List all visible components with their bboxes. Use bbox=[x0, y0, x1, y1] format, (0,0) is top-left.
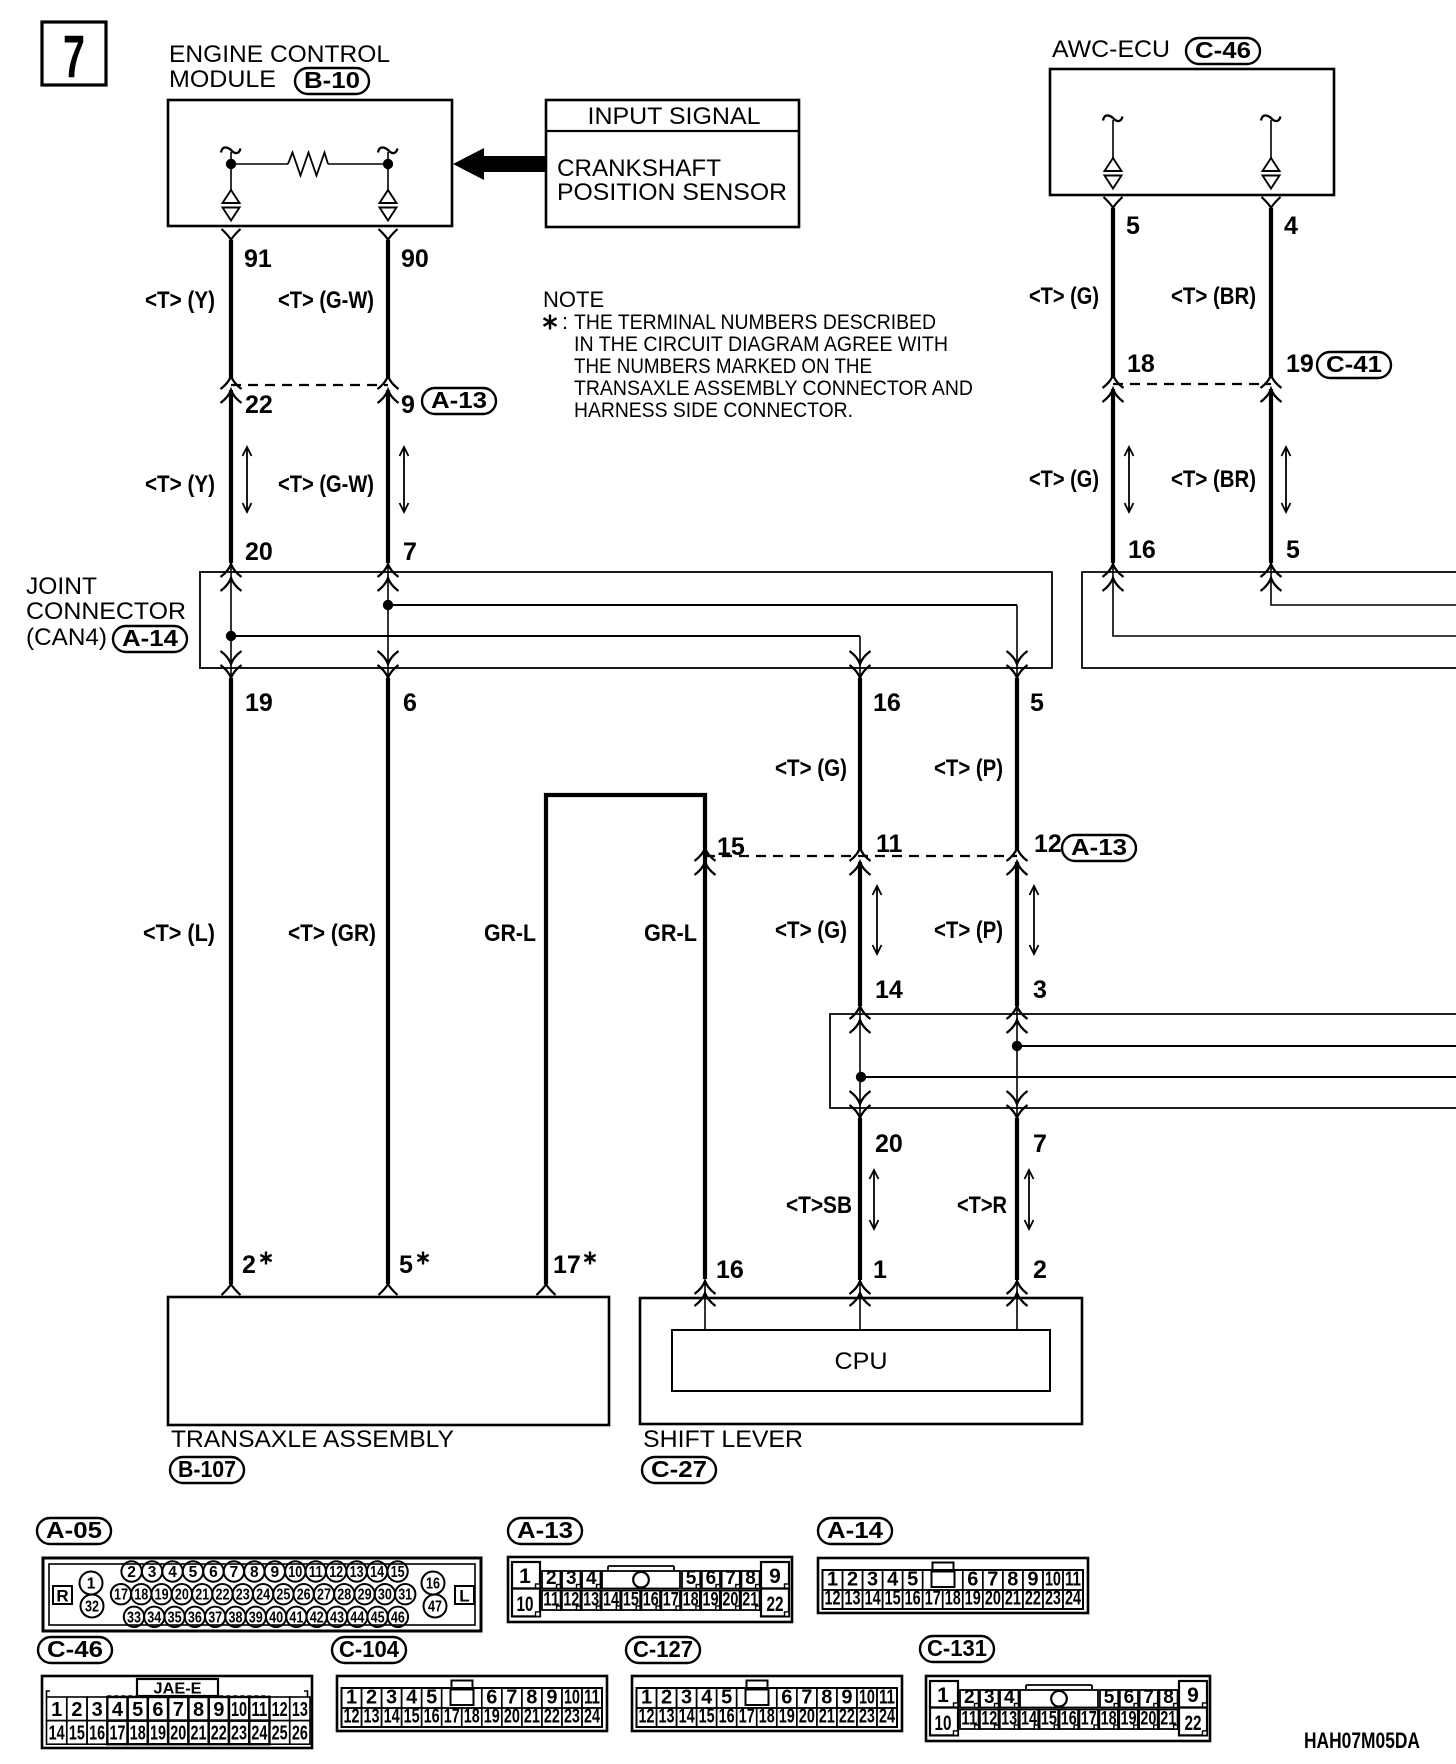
twisted pair arrow W6 middle bbox=[1030, 886, 1039, 954]
wire W5 through joint connector 2 bbox=[859, 1005, 861, 1121]
svg-text:6: 6 bbox=[209, 1564, 218, 1581]
svg-text:22: 22 bbox=[767, 1593, 784, 1616]
ECM internal coil pin right bbox=[378, 147, 398, 220]
svg-text:A-13: A-13 bbox=[431, 387, 487, 413]
svg-text:7: 7 bbox=[725, 1568, 736, 1589]
wire 11 to joint connector 2 pin 14 bbox=[858, 862, 862, 1006]
joint connector A-14 left box bbox=[200, 572, 1052, 668]
svg-text:4: 4 bbox=[168, 1564, 177, 1581]
CPU box bbox=[672, 1330, 1050, 1391]
svg-text:24: 24 bbox=[584, 1706, 601, 1728]
twisted pair arrow W8 bbox=[1282, 447, 1291, 512]
svg-text:6: 6 bbox=[403, 689, 417, 717]
twisted pair arrow W5 lower bbox=[870, 1170, 879, 1229]
svg-text:12: 12 bbox=[272, 1699, 288, 1721]
svg-text:18: 18 bbox=[134, 1587, 148, 1604]
svg-text:36: 36 bbox=[188, 1609, 202, 1626]
svg-text:10: 10 bbox=[935, 1712, 952, 1735]
svg-text:17: 17 bbox=[109, 1723, 125, 1745]
svg-text:13: 13 bbox=[364, 1706, 380, 1728]
svg-text:21: 21 bbox=[1005, 1588, 1021, 1610]
svg-text:17: 17 bbox=[444, 1706, 460, 1728]
connector label B-107 bbox=[170, 1456, 244, 1483]
svg-text:2: 2 bbox=[546, 1568, 557, 1589]
svg-text:22: 22 bbox=[216, 1587, 230, 1604]
svg-text:L: L bbox=[459, 1587, 469, 1606]
svg-text:15: 15 bbox=[699, 1706, 715, 1728]
svg-text:<T> (G): <T> (G) bbox=[1029, 283, 1099, 310]
svg-text:4: 4 bbox=[1004, 1687, 1015, 1708]
svg-text:24: 24 bbox=[256, 1587, 270, 1604]
svg-text:A-05: A-05 bbox=[46, 1517, 102, 1543]
svg-text:17: 17 bbox=[925, 1588, 941, 1610]
svg-text:GR-L: GR-L bbox=[644, 920, 697, 947]
svg-text:1: 1 bbox=[51, 1699, 62, 1721]
svg-text:CPU: CPU bbox=[835, 1348, 888, 1375]
svg-text:4: 4 bbox=[112, 1699, 124, 1721]
svg-text:A-14: A-14 bbox=[122, 625, 178, 651]
joint connector entry chevrons W2 top bbox=[378, 564, 399, 591]
svg-text:19: 19 bbox=[150, 1723, 166, 1745]
svg-text:25: 25 bbox=[272, 1723, 288, 1745]
svg-text:91: 91 bbox=[244, 245, 272, 273]
svg-text:15: 15 bbox=[404, 1706, 420, 1728]
svg-text:7: 7 bbox=[230, 1564, 239, 1581]
svg-text:1: 1 bbox=[873, 1256, 887, 1284]
svg-text:8: 8 bbox=[1163, 1687, 1174, 1708]
joint connector right entry chevrons W7 bbox=[1103, 564, 1124, 591]
svg-text:A-14: A-14 bbox=[827, 1517, 883, 1543]
svg-text:B-10: B-10 bbox=[304, 67, 360, 93]
svg-text:43: 43 bbox=[330, 1609, 344, 1626]
svg-text:11: 11 bbox=[251, 1699, 267, 1721]
svg-text:2: 2 bbox=[71, 1699, 82, 1721]
svg-text:22: 22 bbox=[245, 391, 273, 419]
connector label C-131 bbox=[920, 1635, 994, 1662]
svg-text:26: 26 bbox=[297, 1587, 311, 1604]
junction dot W1 CAN branch bbox=[226, 631, 236, 641]
svg-text:19: 19 bbox=[155, 1587, 169, 1604]
wire GR-L loop top bbox=[546, 795, 705, 1284]
ECM internal coil pin left bbox=[221, 147, 241, 220]
svg-text:4: 4 bbox=[1284, 212, 1298, 240]
svg-text:20: 20 bbox=[985, 1588, 1001, 1610]
svg-text:23: 23 bbox=[231, 1723, 247, 1745]
label JOINT CONNECTOR CAN4 bbox=[26, 573, 186, 651]
svg-text:34: 34 bbox=[147, 1609, 161, 1626]
dashed connector line A-13 middle bbox=[705, 855, 1017, 857]
shift lever entry chevrons pin 1 bbox=[850, 1281, 871, 1306]
wire CAN ECM pin 90 upper segment bbox=[379, 229, 398, 378]
svg-text:16: 16 bbox=[719, 1706, 735, 1728]
connector label C-46 top bbox=[1186, 37, 1260, 64]
svg-text:9: 9 bbox=[401, 391, 415, 419]
svg-text:C-27: C-27 bbox=[651, 1456, 707, 1482]
svg-text:JAE-E: JAE-E bbox=[154, 1681, 202, 1698]
svg-text:5: 5 bbox=[1030, 689, 1044, 717]
svg-text:<T> (Y): <T> (Y) bbox=[145, 287, 215, 314]
connector label A-13 top bbox=[422, 387, 496, 414]
svg-text:3: 3 bbox=[566, 1568, 577, 1589]
wire pin16 into CPU bbox=[704, 1281, 706, 1330]
svg-text:HAH07M05DA: HAH07M05DA bbox=[1304, 1728, 1420, 1753]
svg-text:3: 3 bbox=[148, 1564, 157, 1581]
resistor R between ECM pins 91 and 90 bbox=[235, 153, 384, 176]
svg-text:<T> (BR): <T> (BR) bbox=[1171, 283, 1256, 310]
svg-text:6: 6 bbox=[1124, 1687, 1135, 1708]
svg-text:14: 14 bbox=[679, 1706, 696, 1728]
joint connector 2 box bbox=[830, 1014, 1456, 1108]
svg-text:20: 20 bbox=[799, 1706, 815, 1728]
svg-text:<T>R: <T>R bbox=[957, 1192, 1007, 1219]
svg-text:<T> (P): <T> (P) bbox=[934, 755, 1003, 782]
svg-text:<T> (Y): <T> (Y) bbox=[145, 471, 215, 498]
svg-text:47: 47 bbox=[428, 1599, 442, 1616]
svg-text:7: 7 bbox=[1033, 1130, 1047, 1158]
twisted pair arrow W6 lower bbox=[1025, 1170, 1034, 1229]
twisted pair arrow W2 bbox=[400, 447, 409, 512]
svg-text:41: 41 bbox=[289, 1609, 303, 1626]
svg-text:A-13: A-13 bbox=[1071, 834, 1127, 860]
svg-text:10: 10 bbox=[231, 1699, 247, 1721]
svg-text:8: 8 bbox=[193, 1699, 204, 1721]
svg-text:AWC-ECU: AWC-ECU bbox=[1052, 36, 1170, 63]
wire 18 to joint connector 16 bbox=[1111, 389, 1115, 563]
wire AWC pin 5 upper bbox=[1104, 197, 1123, 378]
svg-text:19: 19 bbox=[1286, 350, 1314, 378]
svg-text:B-107: B-107 bbox=[178, 1456, 236, 1482]
svg-text:C-104: C-104 bbox=[339, 1636, 399, 1662]
svg-text:7: 7 bbox=[1143, 1687, 1154, 1708]
CAN branch wire to pin 5 bbox=[388, 605, 1017, 681]
svg-text:5: 5 bbox=[189, 1564, 198, 1581]
svg-text:C-41: C-41 bbox=[1326, 351, 1382, 377]
pin label 17 star bbox=[553, 1251, 596, 1279]
svg-text:17: 17 bbox=[739, 1706, 755, 1728]
svg-text:23: 23 bbox=[236, 1587, 250, 1604]
svg-text:13: 13 bbox=[659, 1706, 675, 1728]
junction dot W5 bbox=[856, 1072, 866, 1082]
svg-text:16: 16 bbox=[716, 1256, 744, 1284]
svg-text:20: 20 bbox=[170, 1723, 186, 1745]
svg-text:14: 14 bbox=[875, 976, 903, 1004]
svg-text:39: 39 bbox=[249, 1609, 263, 1626]
connector label A-14 bbox=[113, 625, 187, 652]
svg-text:16: 16 bbox=[89, 1723, 105, 1745]
wire W2 through joint connector bbox=[387, 562, 389, 681]
svg-text:28: 28 bbox=[337, 1587, 351, 1604]
wire 19 to transaxle 2 bbox=[222, 678, 241, 1295]
svg-text:CONNECTOR: CONNECTOR bbox=[26, 598, 186, 625]
svg-text:22: 22 bbox=[544, 1706, 560, 1728]
svg-text:C-131: C-131 bbox=[927, 1635, 987, 1661]
svg-text:42: 42 bbox=[310, 1609, 324, 1626]
svg-text:16: 16 bbox=[426, 1576, 440, 1593]
wire 22 to joint connector 20 bbox=[229, 390, 233, 563]
shift lever entry chevrons GR-L pin 16 bbox=[695, 1281, 716, 1306]
connector A-14 pinout bbox=[818, 1558, 1088, 1613]
joint connector exit chevrons x=388 bbox=[378, 651, 399, 678]
crossing chevrons W5 pin 11 bbox=[850, 848, 871, 875]
svg-text:THE TERMINAL NUMBERS DESCRIBED: THE TERMINAL NUMBERS DESCRIBED bbox=[574, 310, 936, 334]
AWC internal pin right bbox=[1261, 115, 1281, 188]
svg-text:A-13: A-13 bbox=[517, 1517, 573, 1543]
svg-text:TRANSAXLE ASSEMBLY: TRANSAXLE ASSEMBLY bbox=[171, 1426, 454, 1453]
svg-text:2: 2 bbox=[127, 1564, 136, 1581]
label ENGINE CONTROL MODULE bbox=[169, 41, 390, 93]
svg-text:GR-L: GR-L bbox=[484, 920, 536, 947]
connector label A-14 bottom bbox=[818, 1517, 892, 1544]
svg-text:1: 1 bbox=[519, 1565, 531, 1588]
svg-text:22: 22 bbox=[211, 1723, 227, 1745]
svg-text:2: 2 bbox=[964, 1687, 975, 1708]
svg-text:19: 19 bbox=[965, 1588, 981, 1610]
svg-text:5: 5 bbox=[1126, 212, 1140, 240]
connector label C-104 bbox=[332, 1636, 406, 1663]
svg-text:R: R bbox=[56, 1587, 68, 1606]
svg-text:1: 1 bbox=[87, 1576, 96, 1593]
svg-text:8: 8 bbox=[745, 1568, 756, 1589]
svg-text:11: 11 bbox=[876, 830, 903, 858]
svg-text:5: 5 bbox=[1104, 1687, 1115, 1708]
svg-text:14: 14 bbox=[49, 1723, 66, 1745]
svg-text:14: 14 bbox=[865, 1588, 882, 1610]
svg-text:<T> (G-W): <T> (G-W) bbox=[278, 471, 374, 498]
dashed connector line C-41 bbox=[1113, 383, 1271, 385]
svg-text:C-46: C-46 bbox=[47, 1636, 103, 1662]
svg-text:POSITION SENSOR: POSITION SENSOR bbox=[557, 179, 787, 206]
svg-text:10: 10 bbox=[288, 1564, 302, 1581]
svg-text:<T>SB: <T>SB bbox=[786, 1192, 852, 1219]
joint connector 2 entry chevrons W5 bbox=[850, 1006, 871, 1033]
svg-text:9: 9 bbox=[1187, 1684, 1199, 1707]
svg-text:9: 9 bbox=[271, 1564, 280, 1581]
svg-text:5: 5 bbox=[686, 1568, 697, 1589]
svg-text:2: 2 bbox=[242, 1251, 256, 1279]
connector C-127 pinout bbox=[632, 1676, 902, 1731]
wire 20 to shift lever pin 1 bbox=[858, 1118, 862, 1280]
connector C-104 pinout bbox=[337, 1676, 607, 1731]
svg-text:7: 7 bbox=[63, 23, 85, 90]
svg-text:16: 16 bbox=[424, 1706, 440, 1728]
connector C-131 pinout bbox=[926, 1676, 1210, 1741]
svg-text:5: 5 bbox=[1286, 536, 1300, 564]
connector label A-05 bbox=[37, 1517, 111, 1544]
wire W6 through joint connector 2 bbox=[1016, 1005, 1018, 1121]
wire 6 to transaxle 5 bbox=[379, 678, 398, 1295]
svg-text:14: 14 bbox=[384, 1706, 401, 1728]
svg-text:<T> (G): <T> (G) bbox=[775, 917, 847, 944]
svg-text:31: 31 bbox=[398, 1587, 412, 1604]
svg-text:18: 18 bbox=[759, 1706, 775, 1728]
svg-text:MODULE: MODULE bbox=[169, 66, 276, 93]
svg-text:24: 24 bbox=[879, 1706, 896, 1728]
connector label C-27 bbox=[642, 1456, 716, 1483]
svg-text:29: 29 bbox=[358, 1587, 372, 1604]
svg-text:4: 4 bbox=[586, 1568, 597, 1589]
wire W1 through joint connector bbox=[230, 562, 232, 681]
svg-text:IN THE CIRCUIT DIAGRAM AGREE W: IN THE CIRCUIT DIAGRAM AGREE WITH bbox=[574, 332, 948, 356]
svg-text:15: 15 bbox=[69, 1723, 85, 1745]
svg-text:6: 6 bbox=[152, 1699, 163, 1721]
svg-text:18: 18 bbox=[464, 1706, 480, 1728]
joint connector 2 entry chevrons W6 bbox=[1007, 1006, 1028, 1033]
svg-text:22: 22 bbox=[1025, 1588, 1041, 1610]
engine control module U1 box bbox=[168, 100, 452, 226]
wire 16 from joint connector to crossing 11 bbox=[858, 678, 862, 850]
connector C-46 pinout bbox=[42, 1676, 312, 1748]
svg-text:13: 13 bbox=[292, 1699, 308, 1721]
svg-text:13: 13 bbox=[350, 1564, 364, 1581]
svg-text:24: 24 bbox=[251, 1723, 268, 1745]
svg-text:15: 15 bbox=[391, 1564, 405, 1581]
joint connector right box bbox=[1082, 572, 1456, 668]
svg-text:12: 12 bbox=[329, 1564, 343, 1581]
svg-text:C-127: C-127 bbox=[633, 1636, 693, 1662]
svg-text:INPUT SIGNAL: INPUT SIGNAL bbox=[588, 103, 761, 130]
joint connector 2 exit chevrons W6 bbox=[1007, 1091, 1028, 1118]
svg-text:18: 18 bbox=[1127, 350, 1155, 378]
inline connector A-13 crossing on wire 91/22 bbox=[221, 376, 242, 403]
svg-text:45: 45 bbox=[371, 1609, 385, 1626]
wire GR-L fork into transaxle 17 bbox=[537, 1284, 556, 1295]
connector label C-41 bbox=[1317, 351, 1391, 378]
wire 5 from joint connector to crossing 12 bbox=[1015, 678, 1019, 850]
twisted pair arrow W1 bbox=[243, 447, 252, 512]
svg-text:21: 21 bbox=[195, 1587, 209, 1604]
svg-text:37: 37 bbox=[208, 1609, 222, 1626]
svg-text:NOTE: NOTE bbox=[543, 287, 604, 312]
svg-text:(CAN4): (CAN4) bbox=[26, 624, 107, 651]
dashed connector line A-13 left bbox=[231, 384, 388, 386]
twisted pair arrow W5 middle bbox=[873, 886, 882, 954]
svg-text:19: 19 bbox=[779, 1706, 795, 1728]
joint connector entry chevrons W1 top bbox=[221, 564, 242, 591]
svg-text:35: 35 bbox=[168, 1609, 182, 1626]
svg-text:24: 24 bbox=[1065, 1588, 1082, 1610]
page number box 7 bbox=[42, 22, 106, 90]
svg-text:19: 19 bbox=[245, 689, 273, 717]
inline connector crossing W7 pin 18 bbox=[1103, 375, 1124, 402]
junction dot W6 bbox=[1012, 1041, 1022, 1051]
svg-text:30: 30 bbox=[378, 1587, 392, 1604]
svg-text:14: 14 bbox=[370, 1564, 384, 1581]
svg-text:33: 33 bbox=[127, 1609, 141, 1626]
svg-text:<T> (BR): <T> (BR) bbox=[1171, 466, 1256, 493]
svg-text:12: 12 bbox=[1034, 830, 1062, 858]
svg-text:23: 23 bbox=[859, 1706, 875, 1728]
svg-text:20: 20 bbox=[245, 538, 273, 566]
svg-text:44: 44 bbox=[350, 1609, 364, 1626]
branch wire W6 to right edge bbox=[1017, 1045, 1456, 1047]
svg-text:17: 17 bbox=[114, 1587, 128, 1604]
svg-text:1: 1 bbox=[937, 1684, 949, 1707]
svg-text:<T> (P): <T> (P) bbox=[934, 917, 1003, 944]
svg-text:6: 6 bbox=[706, 1568, 717, 1589]
inline connector crossing on GR-L wire pin 15 bbox=[695, 848, 716, 875]
connector label A-13 bottom bbox=[508, 1517, 582, 1544]
svg-text:13: 13 bbox=[845, 1588, 861, 1610]
AWC internal pin left bbox=[1103, 115, 1123, 188]
svg-text:7: 7 bbox=[173, 1699, 184, 1721]
svg-text:38: 38 bbox=[229, 1609, 243, 1626]
shift lever entry chevrons pin 2 bbox=[1007, 1281, 1028, 1306]
svg-text::: : bbox=[562, 309, 568, 334]
AWC-ECU box bbox=[1050, 69, 1334, 195]
svg-text:20: 20 bbox=[875, 1130, 903, 1158]
wire 19 to joint connector 5 bbox=[1269, 389, 1273, 563]
svg-text:TRANSAXLE ASSEMBLY CONNECTOR A: TRANSAXLE ASSEMBLY CONNECTOR AND bbox=[574, 376, 973, 400]
svg-text:21: 21 bbox=[524, 1706, 540, 1728]
svg-text:23: 23 bbox=[1045, 1588, 1061, 1610]
twisted pair arrow W7 bbox=[1125, 447, 1134, 512]
wire CAN ECM pin 91 upper segment bbox=[222, 229, 241, 378]
svg-text:22: 22 bbox=[1185, 1712, 1202, 1735]
connector label C-46 bottom bbox=[38, 1636, 112, 1663]
svg-text:SHIFT LEVER: SHIFT LEVER bbox=[643, 1426, 803, 1453]
svg-text:16: 16 bbox=[905, 1588, 921, 1610]
svg-text:20: 20 bbox=[175, 1587, 189, 1604]
INPUT SIGNAL box bbox=[546, 100, 799, 227]
svg-text:3: 3 bbox=[1033, 976, 1047, 1004]
svg-text:12: 12 bbox=[825, 1588, 841, 1610]
svg-text:16: 16 bbox=[1128, 536, 1156, 564]
svg-text:<T> (G-W): <T> (G-W) bbox=[278, 287, 374, 314]
svg-text:10: 10 bbox=[517, 1593, 534, 1616]
joint connector exit chevrons x=860 bbox=[850, 651, 871, 678]
svg-text:2: 2 bbox=[1033, 1256, 1047, 1284]
input signal arrow bbox=[453, 148, 546, 180]
wire 9 to joint connector 7 bbox=[386, 390, 390, 563]
svg-text:<T> (GR): <T> (GR) bbox=[288, 920, 376, 947]
inline connector crossing on wire 90/9 bbox=[378, 376, 399, 403]
connector label C-127 bbox=[626, 1636, 700, 1663]
pin label 2 star bbox=[242, 1251, 272, 1279]
joint connector 2 exit chevrons W5 bbox=[850, 1091, 871, 1118]
svg-text:8: 8 bbox=[250, 1564, 259, 1581]
shift lever box bbox=[640, 1298, 1082, 1424]
svg-text:ENGINE CONTROL: ENGINE CONTROL bbox=[169, 41, 390, 68]
svg-text:32: 32 bbox=[85, 1599, 99, 1616]
wire 7 to shift lever pin 2 bbox=[1015, 1118, 1019, 1280]
svg-text:27: 27 bbox=[317, 1587, 331, 1604]
svg-text:9: 9 bbox=[769, 1565, 781, 1588]
joint connector exit chevrons x=1017 bbox=[1007, 651, 1028, 678]
svg-text:THE NUMBERS MARKED ON THE: THE NUMBERS MARKED ON THE bbox=[574, 354, 872, 378]
wire AWC pin 4 upper bbox=[1262, 197, 1281, 378]
wire pin2 into CPU bbox=[1016, 1281, 1018, 1330]
svg-text:20: 20 bbox=[504, 1706, 520, 1728]
pin label 5 star bbox=[399, 1251, 429, 1279]
connector label A-13 middle bbox=[1062, 834, 1136, 861]
svg-text:CRANKSHAFT: CRANKSHAFT bbox=[557, 155, 721, 182]
svg-text:HARNESS SIDE CONNECTOR.: HARNESS SIDE CONNECTOR. bbox=[574, 398, 853, 422]
connector label B-10 bbox=[295, 67, 369, 94]
inline connector crossing W8 pin 19 bbox=[1261, 375, 1282, 402]
transaxle assembly box bbox=[168, 1297, 609, 1425]
wire W7 inside joint connector to right edge bbox=[1113, 562, 1456, 636]
joint connector right entry chevrons W8 bbox=[1261, 564, 1282, 591]
junction dot W2 CAN branch bbox=[383, 600, 393, 610]
svg-text:23: 23 bbox=[564, 1706, 580, 1728]
svg-text:<T> (G): <T> (G) bbox=[775, 755, 847, 782]
connector A-05 pinout bbox=[43, 1558, 481, 1631]
svg-text:5: 5 bbox=[132, 1699, 143, 1721]
CAN branch wire to pin 16 bbox=[231, 636, 860, 681]
svg-text:5: 5 bbox=[399, 1251, 413, 1279]
svg-text:22: 22 bbox=[839, 1706, 855, 1728]
svg-text:46: 46 bbox=[391, 1609, 405, 1626]
